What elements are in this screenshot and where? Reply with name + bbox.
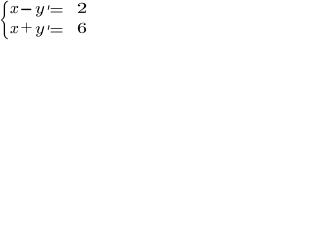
row1 minus sign — [21, 9, 31, 10]
row1 prime flick after y — [48, 5, 50, 10]
row1 equals sign — [51, 8, 63, 12]
row2 plus sign — [21, 23, 31, 33]
row1 constant 2 — [78, 3, 86, 13]
row2 constant 6 — [78, 23, 86, 33]
row1 variable y — [36, 6, 45, 17]
row1 variable x — [10, 6, 18, 13]
left curly brace of cases — [1, 1, 8, 39]
row2 prime flick after y — [48, 25, 50, 30]
row2 variable y — [36, 26, 45, 37]
row2 variable x — [10, 26, 18, 33]
row2 equals sign — [51, 28, 63, 32]
